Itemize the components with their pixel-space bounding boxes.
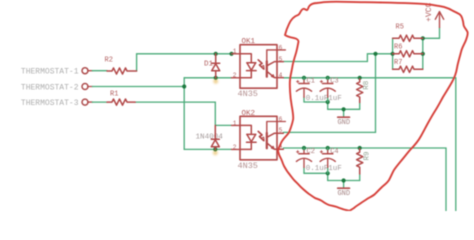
junction R6 right [421, 52, 425, 56]
wire C3 bottom riser [327, 102, 329, 109]
svg-text:R6: R6 [394, 44, 402, 52]
wire VCC feed [423, 28, 440, 39]
svg-text:5: 5 [279, 127, 283, 134]
junction D1 cathode / OK1 pin 2 row [214, 76, 218, 80]
svg-text:4N35: 4N35 [238, 161, 258, 171]
junction D1 anode / node A [214, 52, 218, 56]
svg-text:4: 4 [279, 72, 283, 79]
svg-text:C3: C3 [330, 78, 338, 86]
junction GND 1 drop [342, 107, 346, 111]
ERC warning marker under D1 [213, 79, 218, 84]
connector pin THERMOSTAT-3 [21, 99, 93, 108]
capacitor C2 (0.1uF) [296, 148, 328, 174]
power symbol +VCC [425, 2, 444, 27]
wire C4 bottom riser [327, 173, 329, 180]
svg-text:THERMOSTAT-2: THERMOSTAT-2 [21, 83, 79, 92]
capacitor C1 (0.1uF) [296, 78, 328, 103]
svg-text:0.1uF: 0.1uF [306, 165, 329, 173]
svg-text:1uF: 1uF [328, 165, 342, 173]
wire OK1 pin 2 row [184, 77, 231, 79]
svg-text:GND: GND [337, 119, 350, 127]
wire THERMOSTAT-1 to R2 [92, 70, 107, 72]
svg-text:1uF: 1uF [328, 95, 342, 103]
wire R2 to OK1 pin 1 (node A) [137, 54, 232, 71]
svg-text:6: 6 [279, 44, 283, 51]
optocoupler OK2 [232, 110, 286, 160]
wire R8 bottom lead net [359, 103, 361, 110]
wire vertical joining OK1 pin 2 and OK2 pin 2 [183, 78, 185, 150]
svg-text:4N35: 4N35 [238, 89, 258, 99]
wire THERMOSTAT-2 row [92, 86, 184, 88]
wire C1 to C3 bottom rail [304, 101, 328, 103]
resistor R6 [393, 44, 423, 57]
junction R5 right / VCC [421, 36, 425, 40]
junction C3 bottom [326, 100, 330, 104]
junction R6 left [391, 52, 395, 56]
junction D2 cathode / OK2 pin 2 row [213, 147, 217, 151]
freehand red annotation loop [278, 2, 468, 211]
junction at OK1 pin 1 [229, 52, 233, 56]
junction C1 top [302, 76, 306, 80]
wire OK2 pin 5 riser to collector net [283, 54, 375, 133]
optocoupler OK1 [232, 38, 286, 88]
svg-text:R2: R2 [105, 57, 113, 65]
wire OK2 pin 2 row [184, 148, 231, 150]
resistor R7 [393, 59, 423, 72]
svg-text:2: 2 [233, 72, 237, 79]
svg-text:5: 5 [279, 56, 283, 63]
junction C4 bottom [326, 171, 330, 175]
svg-text:C2: C2 [307, 148, 315, 156]
svg-text:2: 2 [233, 144, 237, 151]
junction collector net riser [373, 52, 377, 56]
wire lower rail to R8 [328, 108, 360, 110]
svg-text:C4: C4 [330, 148, 338, 156]
svg-text:1N4004: 1N4004 [196, 133, 224, 141]
junction GND 2 drop [342, 178, 346, 182]
svg-text:C1: C1 [307, 78, 315, 86]
svg-text:OK2: OK2 [242, 110, 256, 118]
svg-text:R9: R9 [364, 151, 372, 160]
wire drop to GND 2 [343, 181, 345, 188]
wire C2 to C4 bottom rail [304, 172, 328, 174]
capacitor C4 (1uF) [320, 148, 342, 174]
wire OK2 pin 4 rail to lower right [283, 148, 446, 211]
resistor R1 [107, 91, 135, 106]
svg-text:6: 6 [279, 116, 283, 123]
resistor R2 [105, 57, 137, 75]
svg-text:1: 1 [233, 120, 237, 127]
svg-text:THERMOSTAT-1: THERMOSTAT-1 [21, 68, 79, 77]
svg-text:R1: R1 [110, 91, 118, 99]
connector pin THERMOSTAT-2 [21, 83, 93, 92]
svg-text:R8: R8 [363, 81, 371, 90]
resistor R9 [357, 149, 372, 174]
ERC warning marker under D2 [213, 150, 218, 155]
junction R9 top [358, 146, 362, 150]
wire resistor bank right vertical [422, 38, 424, 69]
junction C2 top [302, 146, 306, 150]
svg-text:R5: R5 [396, 24, 404, 32]
wire R9 bottom lead net [359, 174, 361, 181]
wire OK1 pin 5 to resistor bank [283, 54, 392, 62]
ground GND 1 [337, 117, 350, 127]
svg-text:0.1uF: 0.1uF [306, 95, 329, 103]
svg-text:D1: D1 [204, 61, 214, 69]
svg-text:R7: R7 [394, 59, 402, 67]
svg-text:GND: GND [337, 190, 350, 198]
junction C3 top [326, 76, 330, 80]
capacitor C3 (1uF) [320, 78, 342, 103]
svg-text:OK1: OK1 [242, 38, 256, 46]
diode D2 [211, 125, 219, 149]
svg-text:THERMOSTAT-3: THERMOSTAT-3 [21, 99, 79, 108]
junction C4 top [326, 146, 330, 150]
connector pin THERMOSTAT-1 [21, 68, 93, 77]
resistor R5 [393, 24, 423, 42]
wire drop to GND 1 [343, 109, 345, 116]
wire lower rail to R9 [328, 180, 360, 182]
wire OK1 pin 4 rail to lower right [283, 78, 456, 211]
junction THERMOSTAT-2 tap [182, 84, 186, 88]
diode D1 [204, 54, 220, 78]
junction R8 top [358, 76, 362, 80]
resistor R8 [357, 79, 371, 103]
wire resistor bank left vertical [392, 38, 394, 69]
ground GND 2 [337, 188, 350, 198]
wire R1 to OK2 pin 1 (node B) [135, 102, 231, 125]
wire THERMOSTAT-3 to R1 [92, 101, 107, 103]
svg-text:1: 1 [233, 48, 237, 55]
